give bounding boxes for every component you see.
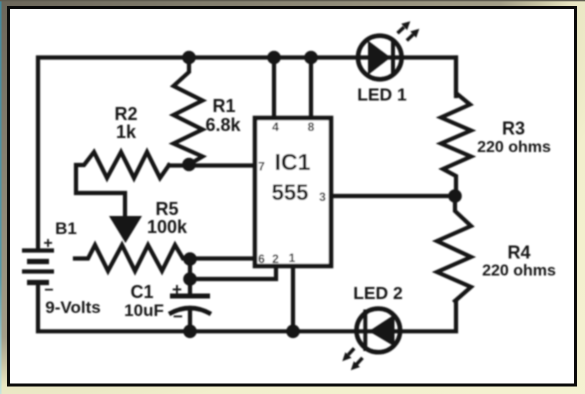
svg-text:+: +	[43, 235, 52, 252]
svg-text:9-Volts: 9-Volts	[45, 298, 100, 317]
svg-text:R4: R4	[507, 243, 530, 263]
svg-text:IC1: IC1	[275, 149, 311, 175]
svg-text:−: −	[173, 307, 183, 326]
svg-text:555: 555	[272, 180, 309, 205]
svg-text:8: 8	[308, 120, 315, 134]
svg-text:R5: R5	[155, 199, 178, 219]
svg-text:R1: R1	[212, 96, 235, 116]
svg-text:+: +	[172, 280, 182, 299]
svg-text:220 ohms: 220 ohms	[477, 139, 551, 156]
svg-text:R3: R3	[502, 119, 525, 139]
svg-text:7: 7	[258, 160, 265, 174]
svg-text:LED 1: LED 1	[357, 85, 407, 105]
svg-text:6: 6	[258, 252, 265, 266]
svg-text:B1: B1	[55, 219, 77, 238]
svg-text:1: 1	[289, 251, 296, 265]
svg-text:6.8k: 6.8k	[205, 115, 241, 135]
svg-text:−: −	[44, 282, 53, 299]
svg-text:100k: 100k	[147, 217, 188, 237]
svg-text:LED 2: LED 2	[353, 283, 403, 303]
svg-text:10uF: 10uF	[124, 301, 164, 320]
svg-text:3: 3	[319, 190, 326, 204]
svg-text:R2: R2	[114, 104, 137, 124]
svg-text:220 ohms: 220 ohms	[482, 263, 556, 280]
svg-text:1k: 1k	[116, 122, 137, 142]
svg-text:C1: C1	[130, 282, 153, 302]
svg-text:4: 4	[272, 120, 279, 134]
svg-text:2: 2	[272, 252, 279, 266]
